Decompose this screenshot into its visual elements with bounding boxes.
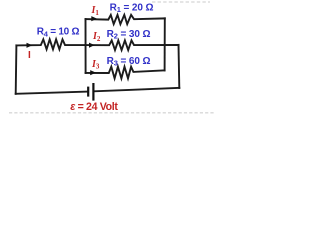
svg-text:I3: I3 xyxy=(91,59,100,71)
current arrow I2 on R2 branch xyxy=(89,43,95,48)
battery cell short plate (negative) xyxy=(87,87,89,97)
svg-text:R3 = 60 Ω: R3 = 60 Ω xyxy=(107,56,151,68)
cropped text remnant bottom xyxy=(9,112,215,114)
resistor R2 branch wire with zigzag xyxy=(86,40,179,50)
current arrow I3 on R3 branch xyxy=(90,70,96,75)
svg-text:ε = 24 Volt: ε = 24 Volt xyxy=(70,101,118,113)
wire bottom left segment to battery xyxy=(16,92,88,94)
resistor R4 branch wire with zigzag xyxy=(16,39,85,49)
wire left bus xyxy=(15,45,18,93)
svg-text:I: I xyxy=(28,50,31,61)
current arrow I1 on R1 branch xyxy=(91,16,97,21)
resistor R3 branch wire with zigzag xyxy=(86,67,165,79)
svg-text:R1 = 20 Ω: R1 = 20 Ω xyxy=(110,2,154,14)
svg-text:I2: I2 xyxy=(92,31,101,43)
cropped text remnant top xyxy=(152,1,210,3)
wire junction bus vertical xyxy=(85,19,87,73)
svg-text:R2 = 30 Ω: R2 = 30 Ω xyxy=(107,29,151,41)
svg-text:R4 = 10 Ω: R4 = 10 Ω xyxy=(37,27,80,39)
wire right vertical joining R1 to R3 xyxy=(164,18,166,70)
wire bottom right segment from battery to right corner xyxy=(94,88,179,91)
battery cell long plate (positive) xyxy=(92,83,94,101)
current arrow I on R4 wire xyxy=(27,43,33,48)
resistor R1 branch wire with zigzag xyxy=(86,15,165,24)
wire right vertical of outer loop (R2 return) xyxy=(178,45,181,88)
svg-text:I1: I1 xyxy=(91,5,100,17)
